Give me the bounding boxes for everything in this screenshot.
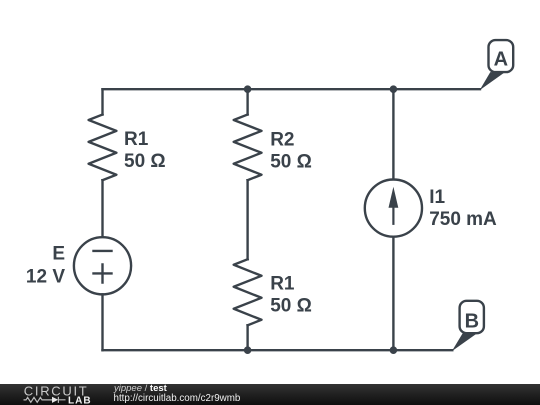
- wire right branch bottom lead: [392, 237, 394, 351]
- wire left rail top lead: [101, 89, 103, 114]
- svg-text:A: A: [494, 49, 508, 71]
- junction node B / middle branch: [244, 346, 252, 354]
- wire left rail bottom lead: [101, 294, 103, 350]
- node B flag tail: [452, 333, 477, 351]
- node A flag box: [489, 40, 514, 72]
- current source I1 circle: [365, 180, 422, 237]
- footer bar: [0, 384, 540, 405]
- wire bottom rail node B: [103, 349, 453, 351]
- current source I1 arrow shaft: [392, 200, 394, 224]
- current source I1 arrow head: [389, 187, 399, 208]
- wire left rail between R1 and E: [101, 180, 103, 237]
- footer logo diode symbol: [52, 397, 58, 403]
- voltage source E plus sign: [94, 265, 112, 283]
- node A flag tail: [480, 72, 505, 90]
- resistor R1 (middle) zigzag: [234, 259, 262, 325]
- svg-text:50 Ω: 50 Ω: [270, 152, 312, 173]
- svg-text:12 V: 12 V: [26, 267, 65, 288]
- junction node B / right branch: [390, 346, 398, 354]
- wire right branch top lead: [392, 89, 394, 179]
- wire middle branch bottom lead: [246, 325, 248, 350]
- svg-text:B: B: [465, 311, 479, 333]
- svg-text:LAB: LAB: [68, 395, 92, 405]
- node B flag box: [460, 301, 484, 333]
- wire top rail node A: [103, 88, 481, 90]
- svg-text:http://circuitlab.com/c2r9wmb: http://circuitlab.com/c2r9wmb: [114, 393, 241, 404]
- voltage source E circle: [74, 237, 131, 294]
- svg-text:750 mA: 750 mA: [429, 209, 497, 230]
- voltage source E minus sign: [94, 250, 112, 252]
- svg-text:I1: I1: [429, 187, 445, 208]
- footer logo resistor-diode squiggle: [24, 397, 53, 402]
- wire middle branch between R2 and R1: [246, 180, 248, 259]
- junction node A / right branch: [390, 85, 398, 93]
- resistor R2 zigzag: [234, 115, 262, 181]
- junction node A / middle branch: [244, 85, 252, 93]
- svg-text:50 Ω: 50 Ω: [270, 295, 312, 316]
- svg-text:R2: R2: [270, 129, 294, 150]
- svg-text:R1: R1: [124, 129, 149, 150]
- svg-text:E: E: [52, 244, 65, 265]
- wire middle branch top lead: [246, 89, 248, 114]
- resistor R1 (left) zigzag: [89, 115, 117, 181]
- svg-text:50 Ω: 50 Ω: [124, 151, 166, 172]
- svg-text:R1: R1: [270, 274, 295, 295]
